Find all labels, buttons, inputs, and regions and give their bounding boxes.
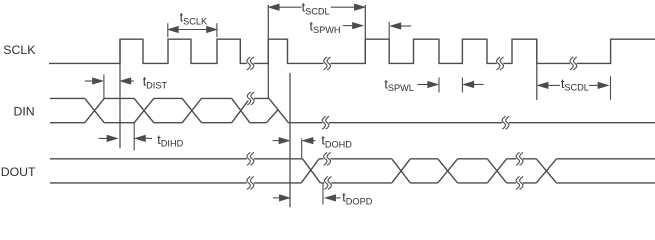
svg-text:tDIHD: tDIHD xyxy=(157,133,183,149)
svg-text:tDOPD: tDOPD xyxy=(342,190,372,206)
svg-text:DIN: DIN xyxy=(14,104,35,118)
svg-text:tSCLK: tSCLK xyxy=(180,10,208,26)
svg-text:tSCDL: tSCDL xyxy=(302,1,330,17)
svg-text:tSPWH: tSPWH xyxy=(310,19,341,35)
svg-text:tDIST: tDIST xyxy=(143,75,168,91)
svg-text:tDOHD: tDOHD xyxy=(321,134,352,150)
svg-text:DOUT: DOUT xyxy=(1,165,36,179)
svg-text:SCLK: SCLK xyxy=(3,43,36,57)
svg-text:tSCDL: tSCDL xyxy=(561,77,589,93)
svg-text:tSPWL: tSPWL xyxy=(384,77,414,93)
